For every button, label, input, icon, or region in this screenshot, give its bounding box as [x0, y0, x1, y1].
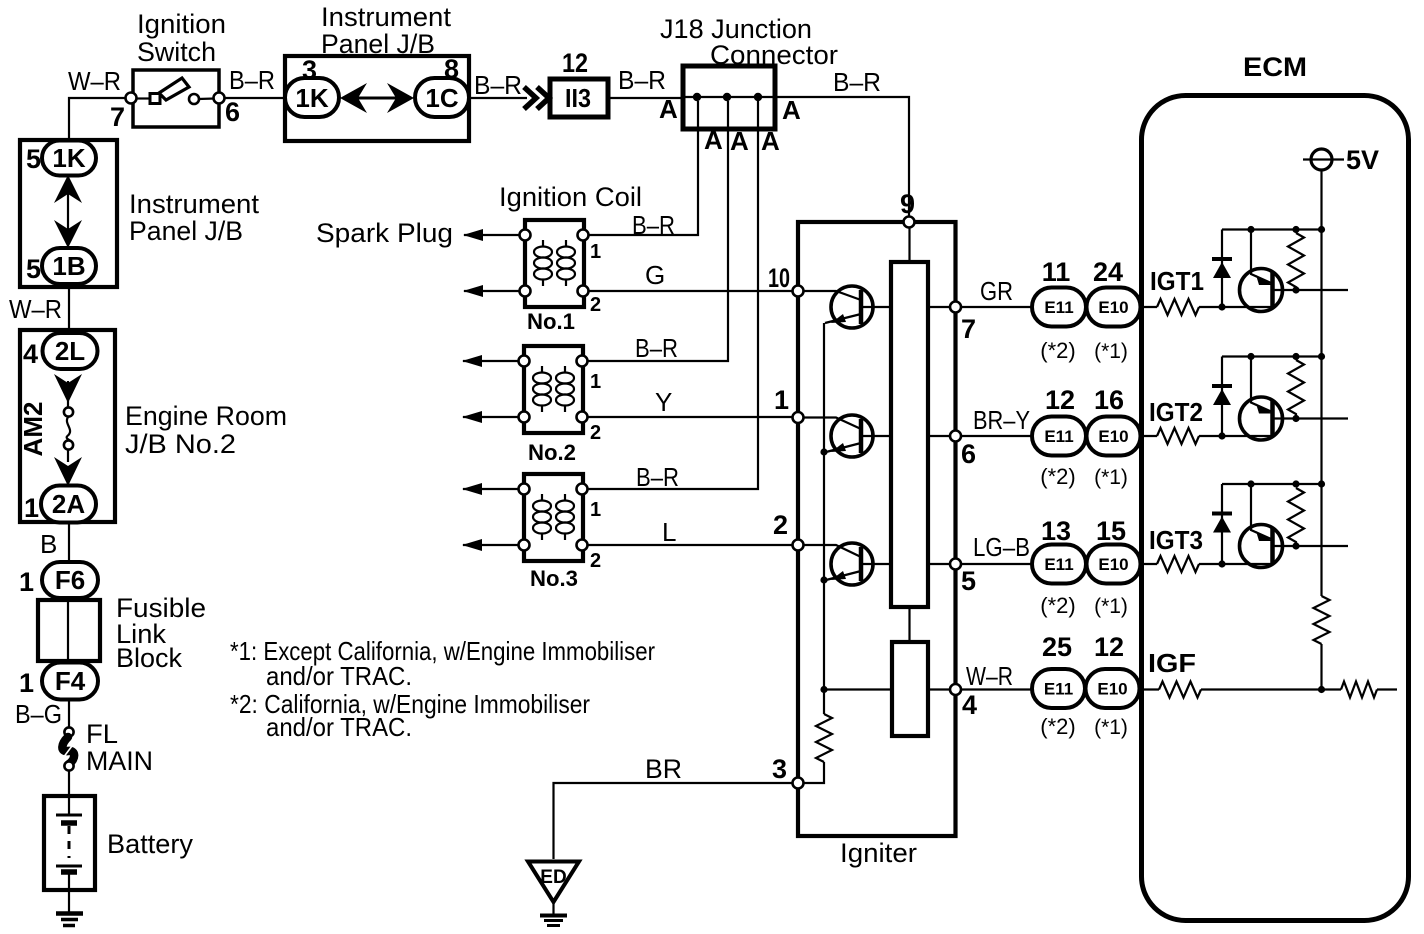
- transistor U3 (ECM IGT3): [1240, 484, 1349, 568]
- svg-text:E10: E10: [1098, 555, 1128, 574]
- wire B-R II3 to J18: [609, 97, 682, 99]
- svg-text:W–R: W–R: [9, 294, 62, 324]
- wire rail to feedback block: [824, 688, 892, 690]
- ignition coil No.3: [519, 474, 588, 561]
- svg-text:(*2): (*2): [1040, 338, 1075, 363]
- wire BR node 3 to ED ground: [554, 783, 793, 859]
- svg-text:2: 2: [773, 510, 788, 540]
- svg-text:Switch: Switch: [137, 37, 216, 67]
- wire GR node 7 to E11: [961, 306, 1032, 308]
- svg-text:B–R: B–R: [636, 462, 679, 492]
- connector 1B (left J/B): [42, 248, 96, 284]
- svg-text:1: 1: [590, 499, 601, 521]
- svg-text:E11: E11: [1044, 427, 1073, 446]
- node 6 (IGT2 out): [950, 431, 961, 442]
- igniter feedback block (IGF): [892, 642, 928, 736]
- node 9 (B+ into igniter): [904, 217, 915, 228]
- wire Q2 output to node 6: [928, 435, 950, 437]
- diode D1 (clamp): [1212, 230, 1232, 311]
- svg-text:9: 9: [900, 189, 915, 219]
- svg-text:1: 1: [590, 371, 601, 393]
- svg-text:1: 1: [590, 241, 601, 263]
- junction Q2 emitter: [820, 448, 827, 455]
- svg-text:Ignition: Ignition: [137, 9, 226, 39]
- svg-text:12: 12: [1094, 632, 1124, 662]
- svg-text:B–R: B–R: [229, 65, 275, 95]
- IGT1 input wire E10 to U1: [1144, 306, 1272, 308]
- svg-text:16: 16: [1094, 385, 1124, 415]
- resistor IGF pull-up (to right): [1341, 682, 1377, 698]
- wire W-R from ignition switch terminal 7 to Instrument Panel J/B 1K: [69, 98, 131, 141]
- node 2 (L input): [793, 540, 804, 551]
- wire BR-Y node 6 to E11: [961, 435, 1032, 437]
- svg-text:II3: II3: [565, 83, 591, 113]
- wire W-R left J/B to Engine Room J/B: [68, 287, 70, 334]
- connector E10 (IGF): [1086, 669, 1140, 708]
- ignition coil No.1: [520, 220, 589, 307]
- svg-text:B–R: B–R: [618, 65, 666, 95]
- wire IGT2 bias top: [1222, 355, 1322, 357]
- svg-text:2: 2: [590, 422, 601, 444]
- svg-text:Engine Room: Engine Room: [125, 401, 287, 431]
- svg-text:5: 5: [961, 566, 976, 596]
- svg-text:LG–B: LG–B: [973, 532, 1030, 562]
- svg-text:3: 3: [772, 754, 787, 784]
- connector E11 (IGT2): [1032, 417, 1086, 456]
- svg-text:B–R: B–R: [833, 67, 881, 97]
- connector E11 (IGF): [1032, 669, 1085, 708]
- svg-text:ECM: ECM: [1243, 52, 1307, 82]
- junction (5V rail): [1318, 353, 1325, 360]
- wire IGF resistor stub: [1322, 688, 1398, 690]
- svg-text:7: 7: [961, 314, 976, 344]
- svg-text:No.1: No.1: [527, 309, 575, 334]
- fusible link F4: [42, 663, 98, 700]
- junction dot A3: [754, 93, 762, 101]
- svg-text:GR: GR: [980, 276, 1013, 306]
- svg-text:Instrument: Instrument: [129, 189, 259, 219]
- svg-text:6: 6: [225, 97, 240, 127]
- wire B-R coil No.2 pin 1 to J18: [588, 101, 728, 361]
- svg-text:MAIN: MAIN: [86, 746, 153, 776]
- node 4 (IGF out): [950, 684, 961, 695]
- ECM box: [1142, 96, 1409, 921]
- svg-text:Panel J/B: Panel J/B: [321, 29, 435, 59]
- svg-text:1: 1: [24, 493, 39, 523]
- svg-text:W–R: W–R: [68, 66, 121, 96]
- svg-text:G: G: [645, 260, 665, 290]
- svg-text:1: 1: [774, 385, 789, 415]
- svg-text:IGT3: IGT3: [1149, 525, 1203, 555]
- svg-text:FL: FL: [86, 719, 118, 749]
- svg-text:12: 12: [562, 48, 588, 78]
- wire Q1 output to node 7: [928, 306, 950, 308]
- resistor IGT3 pull-up: [1288, 488, 1304, 546]
- svg-text:A: A: [782, 95, 801, 125]
- battery: [44, 796, 95, 890]
- svg-text:Spark Plug: Spark Plug: [316, 218, 453, 248]
- svg-text:and/or TRAC.: and/or TRAC.: [266, 661, 412, 691]
- svg-text:AM2: AM2: [18, 402, 48, 457]
- resistor IGT1 series: [1157, 299, 1199, 315]
- svg-text:4: 4: [23, 339, 38, 369]
- IGT2 input wire E10 to U2: [1144, 435, 1272, 437]
- svg-text:1C: 1C: [425, 83, 458, 113]
- junction: [1247, 226, 1254, 233]
- svg-text:A: A: [704, 125, 723, 155]
- node 10 (G input): [793, 286, 804, 297]
- transistor U1 (ECM IGT1): [1240, 230, 1349, 312]
- svg-text:2A: 2A: [52, 489, 85, 519]
- resistor IGT3 series: [1157, 556, 1199, 572]
- svg-text:(*1): (*1): [1094, 466, 1128, 489]
- wire L coil No.3 pin 2 to igniter node 2: [588, 544, 797, 546]
- wire feedback block to node 4: [928, 688, 950, 690]
- svg-text:A: A: [730, 126, 749, 156]
- wire B-R switch to Instrument Panel J/B: [224, 97, 285, 99]
- svg-text:Connector: Connector: [710, 40, 838, 70]
- svg-text:2: 2: [590, 294, 601, 316]
- svg-text:1K: 1K: [52, 143, 85, 173]
- wire node 9 to control IC: [908, 227, 910, 262]
- wire IC to feedback block: [908, 607, 910, 642]
- svg-text:IGF: IGF: [1148, 648, 1196, 678]
- svg-text:5V: 5V: [1346, 145, 1379, 175]
- svg-text:and/or TRAC.: and/or TRAC.: [266, 712, 412, 742]
- Instrument Panel J/B (top): [285, 56, 469, 141]
- emitter rail inside igniter: [823, 323, 825, 714]
- wire to spark plug (coil 2 secondary top): [462, 355, 518, 367]
- wire to spark plug (coil 3 secondary top): [462, 483, 518, 495]
- svg-text:W–R: W–R: [966, 661, 1013, 691]
- connector E10 (IGT3): [1087, 545, 1141, 584]
- fusible link FL MAIN: [62, 727, 74, 796]
- svg-text:B–R: B–R: [635, 333, 678, 363]
- svg-text:E10: E10: [1097, 680, 1127, 699]
- svg-text:Battery: Battery: [107, 829, 193, 859]
- chevron splice marks: [524, 87, 549, 109]
- resistor IGT1 pull-up: [1288, 233, 1304, 290]
- svg-text:7: 7: [110, 102, 125, 132]
- wire IGT3 bias top: [1222, 483, 1322, 485]
- fusible link F6: [42, 562, 98, 598]
- svg-text:A: A: [761, 126, 780, 156]
- resistor (igniter emitter to ground): [816, 714, 832, 762]
- svg-text:10: 10: [768, 263, 790, 293]
- svg-text:E11: E11: [1044, 298, 1073, 317]
- svg-text:1: 1: [19, 567, 34, 597]
- junction: [1247, 480, 1254, 487]
- svg-text:13: 13: [1041, 516, 1071, 546]
- svg-text:1B: 1B: [52, 251, 85, 281]
- wire to spark plug (coil 1 secondary bottom): [463, 285, 519, 297]
- node 3 (ground BR): [793, 778, 804, 789]
- connector 1K (left J/B): [42, 141, 96, 176]
- junction Q3 emitter: [820, 576, 827, 583]
- IGT3 input wire E10 to U3: [1144, 563, 1272, 565]
- junction dot A1: [693, 93, 701, 101]
- diode D3 (clamp): [1212, 484, 1232, 568]
- svg-text:(*1): (*1): [1094, 716, 1128, 739]
- junction arrows inside top J/B: [340, 83, 414, 113]
- connector E10 (IGT2): [1087, 417, 1141, 456]
- connector 1C (top J/B): [415, 78, 469, 117]
- svg-text:5: 5: [26, 144, 41, 174]
- svg-text:Ignition Coil: Ignition Coil: [499, 182, 642, 212]
- svg-text:1K: 1K: [295, 83, 328, 113]
- svg-text:No.3: No.3: [530, 566, 578, 591]
- Engine Room J/B No.2: [20, 330, 115, 522]
- wire G coil No.1 pin 2 to igniter node 10: [589, 290, 797, 292]
- svg-text:J/B No.2: J/B No.2: [125, 429, 236, 459]
- wire B-R J18 to igniter node 9: [775, 97, 909, 217]
- resistor IGF series: [1159, 682, 1201, 698]
- wire B-R coil No.1 pin 1 to J18: [589, 101, 698, 235]
- wire resistor to node 3: [804, 762, 824, 783]
- svg-text:E10: E10: [1098, 298, 1128, 317]
- svg-text:B–R: B–R: [632, 210, 675, 240]
- svg-text:11: 11: [1042, 257, 1071, 287]
- junction arrows inside left J/B: [54, 175, 82, 248]
- ignition switch SW: [126, 70, 225, 127]
- svg-text:Y: Y: [655, 387, 672, 417]
- wire 5V rail: [1320, 170, 1322, 596]
- svg-text:5: 5: [26, 254, 41, 284]
- svg-text:Block: Block: [116, 643, 182, 673]
- junction dot A2: [723, 93, 731, 101]
- transistor Q1 (igniter power transistor No.1): [804, 286, 891, 328]
- connector E11 (IGT3): [1032, 545, 1086, 584]
- connector 1K (top J/B): [285, 78, 339, 117]
- transistor Q3 (igniter power transistor No.3): [804, 543, 891, 585]
- wire B-R coil No.3 pin 1 to J18: [588, 101, 758, 489]
- junction: [1292, 353, 1299, 360]
- svg-text:E11: E11: [1044, 680, 1073, 699]
- 5V supply: [1303, 149, 1344, 170]
- wire IGT1 bias top: [1222, 228, 1322, 230]
- fuse AM2: [54, 374, 82, 486]
- svg-text:F4: F4: [55, 666, 86, 696]
- svg-text:(*2): (*2): [1040, 714, 1075, 739]
- svg-text:(*1): (*1): [1094, 595, 1128, 618]
- svg-text:B–G: B–G: [15, 699, 62, 729]
- junction: [1247, 353, 1254, 360]
- transistor Q2 (igniter power transistor No.2): [804, 415, 891, 457]
- Instrument Panel J/B (left): [20, 140, 117, 287]
- svg-text:12: 12: [1045, 385, 1075, 415]
- resistor IGT2 pull-up: [1288, 360, 1304, 419]
- svg-text:Instrument: Instrument: [321, 2, 451, 32]
- fusible link block: [38, 600, 100, 661]
- svg-text:ED: ED: [540, 867, 566, 888]
- wire LG-B node 5 to E11: [961, 563, 1032, 565]
- svg-text:Panel J/B: Panel J/B: [129, 216, 243, 246]
- svg-text:F6: F6: [55, 565, 85, 595]
- svg-text:4: 4: [962, 690, 977, 720]
- wire W-R node 4 to E11: [961, 688, 1031, 690]
- ground ED (triangle): [528, 862, 579, 926]
- svg-text:1: 1: [19, 668, 34, 698]
- junction IGF / rail: [1318, 686, 1325, 693]
- wire to spark plug (coil 2 secondary bottom): [462, 411, 518, 423]
- diode D2 (clamp): [1212, 357, 1232, 440]
- connector II3: [550, 79, 608, 117]
- junction (5V rail): [1318, 480, 1325, 487]
- wire B-R J/B to junction chevrons: [469, 97, 527, 99]
- J18 junction connector: [683, 66, 775, 129]
- ignition coil No.2: [519, 346, 588, 433]
- svg-text:E11: E11: [1044, 555, 1073, 574]
- igniter control IC: [891, 262, 928, 607]
- svg-text:Igniter: Igniter: [840, 838, 917, 868]
- resistor IGT2 series: [1157, 428, 1199, 444]
- connector E11 (IGT1): [1032, 288, 1086, 327]
- svg-text:15: 15: [1096, 516, 1126, 546]
- node 5 (IGT3 out): [950, 559, 961, 570]
- connector 2L: [43, 333, 98, 369]
- node 1 (Y input): [793, 412, 804, 423]
- node 7 (IGT1 out): [950, 302, 961, 313]
- svg-text:(*2): (*2): [1040, 593, 1075, 618]
- wire Y coil No.2 pin 2 to igniter node 1: [588, 416, 797, 418]
- junction (5V rail): [1318, 226, 1325, 233]
- wire B Engine Room J/B to F6: [68, 522, 70, 563]
- svg-text:A: A: [659, 94, 678, 124]
- svg-text:(*2): (*2): [1040, 464, 1075, 489]
- wire rail resistor to IGF line: [1320, 644, 1322, 690]
- IGF input wire: [1144, 688, 1322, 690]
- wire to spark plug (coil 3 secondary bottom): [462, 539, 518, 551]
- wire to spark plug (coil 1 secondary top): [463, 229, 519, 241]
- svg-text:IGT2: IGT2: [1149, 397, 1203, 427]
- svg-text:6: 6: [961, 439, 976, 469]
- resistor (5V rail to IGF): [1314, 596, 1330, 644]
- svg-text:E10: E10: [1098, 427, 1128, 446]
- svg-text:L: L: [662, 517, 676, 547]
- svg-text:BR: BR: [645, 754, 682, 784]
- svg-text:B–R: B–R: [474, 70, 522, 100]
- ground (battery): [56, 890, 83, 926]
- svg-text:(*1): (*1): [1094, 340, 1128, 363]
- connector E10 (IGT1): [1087, 288, 1141, 327]
- svg-text:24: 24: [1093, 257, 1123, 287]
- svg-text:2: 2: [590, 550, 601, 572]
- junction feedback tap: [820, 686, 827, 693]
- wire B-G F4 to FL MAIN: [68, 700, 70, 728]
- svg-text:BR–Y: BR–Y: [973, 405, 1030, 435]
- wire Q3 output to node 5: [928, 563, 950, 565]
- svg-text:IGT1: IGT1: [1150, 266, 1204, 296]
- svg-text:25: 25: [1042, 632, 1072, 662]
- junction: [1292, 226, 1299, 233]
- igniter box: [798, 222, 956, 836]
- svg-text:B: B: [40, 529, 57, 559]
- transistor U2 (ECM IGT2): [1240, 357, 1349, 441]
- svg-text:No.2: No.2: [528, 440, 576, 465]
- connector 2A: [41, 486, 96, 523]
- svg-text:2L: 2L: [55, 336, 85, 366]
- junction: [1292, 480, 1299, 487]
